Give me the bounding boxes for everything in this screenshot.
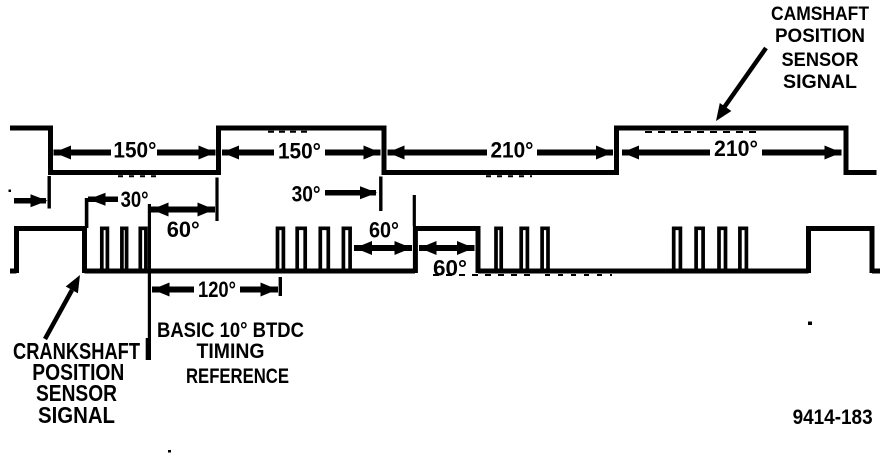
svg-text:120°: 120°: [198, 277, 236, 302]
svg-text:150°: 150°: [278, 139, 321, 164]
svg-text:REFERENCE: REFERENCE: [186, 365, 289, 388]
svg-text:60°: 60°: [433, 256, 467, 281]
svg-text:9414-183: 9414-183: [793, 406, 873, 429]
svg-text:SENSOR: SENSOR: [782, 50, 859, 71]
svg-text:30°: 30°: [292, 182, 321, 207]
svg-text:30°: 30°: [121, 187, 149, 212]
svg-text:150°: 150°: [113, 138, 156, 163]
svg-text:60°: 60°: [167, 217, 200, 242]
svg-text:SIGNAL: SIGNAL: [783, 72, 857, 93]
svg-text:SIGNAL: SIGNAL: [38, 402, 115, 428]
svg-text:60°: 60°: [369, 218, 399, 243]
svg-text:210°: 210°: [491, 138, 534, 163]
svg-text:POSITION: POSITION: [775, 26, 865, 47]
svg-text:BASIC 10° BTDC: BASIC 10° BTDC: [157, 319, 304, 342]
svg-text:CAMSHAFT: CAMSHAFT: [771, 4, 869, 25]
svg-text:210°: 210°: [714, 136, 758, 161]
svg-text:TIMING: TIMING: [197, 340, 265, 363]
